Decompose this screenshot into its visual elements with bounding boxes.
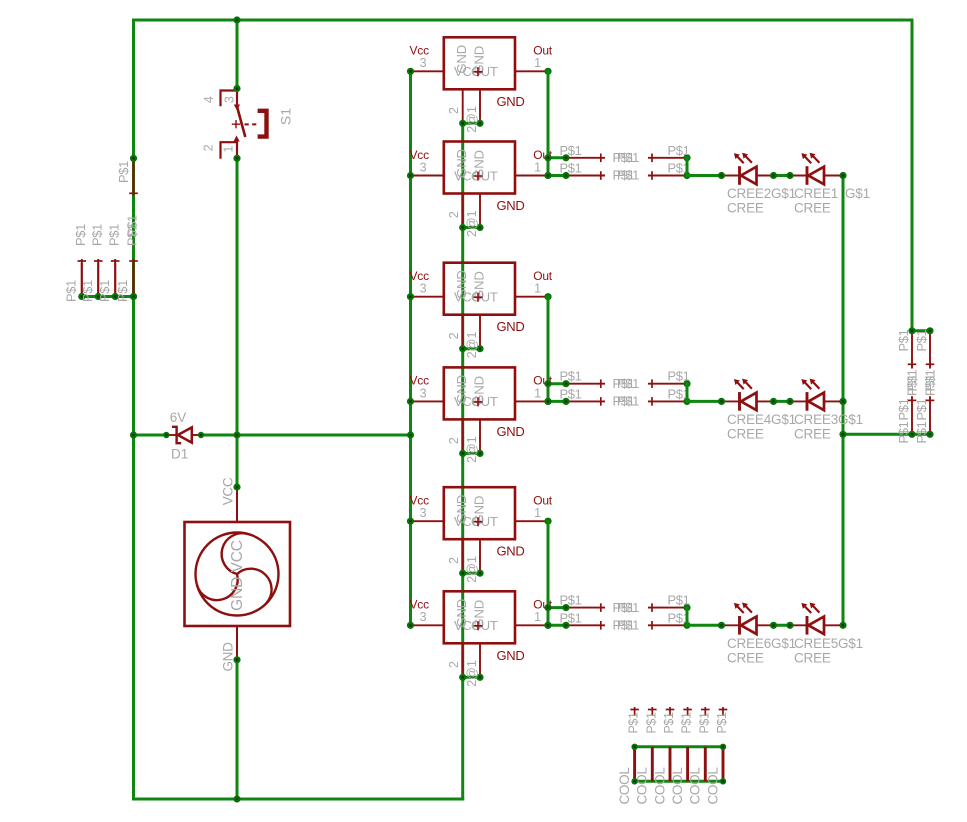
LED CREE2 cathode bar	[738, 166, 741, 185]
U1 pin 1 Out	[515, 70, 548, 72]
pad JP lower-left cross	[600, 621, 602, 630]
wire pad feed upper	[548, 606, 566, 609]
fan M1 GND pin	[236, 626, 238, 660]
node dot header H3	[112, 293, 119, 300]
U4 pin 2@1 GND	[479, 419, 481, 453]
svg-text:CREE: CREE	[794, 650, 831, 665]
U4 pin 3 Vcc	[411, 400, 444, 402]
svg-text:2@1: 2@1	[465, 556, 479, 583]
LED chain left pin	[722, 175, 740, 177]
diode D1 zener bar	[172, 427, 181, 443]
wire pad feed upper	[548, 382, 566, 385]
fan M1 VCC pin	[236, 487, 238, 522]
node dot LED chain 4	[839, 398, 846, 405]
LED CREE4 arrow 2	[745, 381, 752, 388]
pad JP lower-right pin	[648, 400, 687, 402]
U6 pin 2@1 GND	[479, 643, 481, 677]
LED chain mid pin b	[790, 175, 807, 177]
svg-text:3: 3	[420, 282, 427, 296]
pad JP lower-left pin	[566, 175, 605, 177]
LED chain mid pin a	[757, 400, 774, 402]
U2 pin 2@1 GND	[479, 194, 481, 228]
svg-text:COOL: COOL	[617, 767, 632, 805]
U3 GND dot pin2	[459, 345, 466, 352]
svg-text:P$1: P$1	[715, 712, 729, 733]
node dot out column upper	[544, 154, 551, 161]
svg-text:3: 3	[222, 96, 236, 103]
LED CREE6 triangle	[741, 617, 757, 635]
U2 origin cross	[474, 172, 483, 181]
svg-text:GND: GND	[497, 424, 525, 439]
svg-text:CREE: CREE	[727, 650, 764, 665]
U1 Vcc node dot	[407, 68, 414, 75]
pad JP lower-right origin dot	[683, 172, 690, 179]
svg-text:GND: GND	[497, 648, 525, 663]
U1 GND dot pin2@1	[476, 120, 483, 127]
svg-text:D1: D1	[171, 447, 188, 462]
LED chain mid pin b	[790, 400, 807, 402]
U3 pin 3 Vcc	[411, 296, 444, 298]
wire pads to LED chain	[687, 624, 722, 627]
switch S1 pin 1	[236, 142, 238, 159]
header pad H1 pin	[81, 263, 83, 297]
pad JP upper-left cross	[600, 379, 602, 388]
node dot left rail pad	[130, 155, 137, 162]
U5 GND dot pin2	[459, 570, 466, 577]
regulator U2 box	[444, 142, 515, 194]
svg-text:P$1: P$1	[668, 369, 690, 384]
switch S1 lever	[237, 107, 245, 138]
svg-text:CREE4G$1: CREE4G$1	[727, 412, 796, 427]
svg-text:2: 2	[447, 332, 461, 339]
svg-text:P$1: P$1	[106, 224, 121, 246]
LED CREE3 arrow 2	[812, 381, 819, 388]
pad JP lower-left origin dot	[562, 172, 569, 179]
LED chain mid pin b	[790, 624, 807, 626]
wire LED chain mid	[774, 400, 791, 403]
bottom pad B5 top cross	[701, 709, 710, 711]
svg-text:P$1: P$1	[617, 394, 639, 409]
node dot LED chain 4	[839, 622, 846, 629]
wire switch to VCC node	[236, 158, 239, 487]
diode D1 right pin	[192, 434, 202, 436]
bottom jumper J3 bar	[669, 747, 672, 782]
U6 origin cross	[474, 621, 483, 630]
svg-text:GND: GND	[497, 544, 525, 559]
regulator U1 box	[444, 37, 515, 89]
U1 Out node dot	[544, 68, 551, 75]
node dot right connector top right	[926, 327, 933, 334]
right pad upper pin x912	[911, 331, 913, 369]
svg-text:P$1: P$1	[617, 376, 639, 391]
wire switch top feed	[236, 20, 239, 89]
pad JP lower-right pin	[648, 175, 687, 177]
U3 GND dot pin2@1	[476, 345, 483, 352]
svg-text:VCC: VCC	[221, 477, 236, 505]
U6 GND pins tie wire	[463, 676, 480, 679]
svg-text:P$1: P$1	[116, 161, 131, 183]
U2 pin 1 Out	[515, 175, 548, 177]
bottom pad B1 top cross	[630, 709, 639, 711]
fan M1 blade 2	[197, 574, 238, 600]
svg-text:CREE2G$1: CREE2G$1	[727, 186, 796, 201]
fan M1 rotor circle	[196, 533, 279, 616]
U5 pin 2@1 GND	[479, 539, 481, 573]
header pad H4 cross	[129, 260, 138, 262]
wire right rail	[911, 20, 914, 331]
svg-text:1: 1	[534, 282, 541, 296]
bottom jumper J1 bar	[633, 747, 636, 782]
pad P$2 pin	[132, 158, 134, 191]
U1 pin 3 Vcc	[411, 70, 444, 72]
wire pad bridge vertical	[686, 608, 689, 626]
node dot left rail diode row	[130, 431, 137, 438]
svg-text:P$1: P$1	[914, 398, 929, 420]
switch S1 contact wedge top	[234, 105, 240, 111]
svg-text:P$1: P$1	[560, 161, 582, 176]
svg-text:2: 2	[447, 661, 461, 668]
node dot switch top	[233, 85, 240, 92]
node dot Vcc rail diode row	[407, 431, 414, 438]
svg-text:P$1: P$1	[560, 610, 582, 625]
U4 pin 2 GND	[462, 419, 464, 453]
node dot bottom connector TR	[720, 744, 726, 750]
svg-text:P$1: P$1	[697, 712, 711, 733]
pad JP upper-right pin	[648, 157, 687, 159]
svg-text:CREE1: CREE1	[794, 186, 838, 201]
svg-text:COOL: COOL	[652, 767, 667, 805]
LED CREE6 arrow 2	[745, 605, 752, 612]
U5 Out node dot	[544, 518, 551, 525]
pad JP lower-right pin	[648, 624, 687, 626]
LED CREE5 cathode bar	[806, 616, 809, 635]
U4 Out node dot	[544, 398, 551, 405]
svg-text:2@1: 2@1	[465, 436, 479, 463]
U5 GND dot pin2@1	[476, 570, 483, 577]
U6 Out node dot	[544, 622, 551, 629]
pad JP upper-left pin	[566, 383, 605, 385]
LED CREE2 arrow 2	[745, 156, 752, 163]
svg-text:P$1: P$1	[896, 398, 911, 420]
switch S1 pin 4 bracket	[221, 91, 237, 107]
svg-text:COOL: COOL	[705, 767, 720, 805]
LED CREE3 triangle	[808, 393, 824, 411]
bottom pad B2 top cross	[648, 709, 657, 711]
header pad H2 cross	[94, 260, 103, 262]
svg-text:COOL: COOL	[670, 767, 685, 805]
pad JP lower-right origin dot	[683, 398, 690, 405]
U2 GND dot pin2	[459, 224, 466, 231]
node dot right connector bottom right	[926, 431, 933, 438]
header pad H3 pin	[114, 263, 116, 297]
pad JP upper-left pin	[566, 607, 605, 609]
U2 Out node dot	[544, 172, 551, 179]
svg-text:1: 1	[534, 386, 541, 400]
svg-text:P$1: P$1	[668, 593, 690, 608]
bottom pad B3 top cross	[666, 709, 675, 711]
LED chain right pin	[824, 400, 843, 402]
pad JP lower-left origin dot	[562, 622, 569, 629]
U1 pin 2 GND	[462, 89, 464, 123]
right pad lower cross x912	[908, 399, 917, 401]
U2 pin 3 Vcc	[411, 175, 444, 177]
pad JP lower-left pin	[566, 624, 605, 626]
U1 pin 2@1 GND	[479, 89, 481, 123]
svg-text:P$1: P$1	[923, 374, 938, 396]
LED CREE5 arrow 2	[812, 605, 819, 612]
wire LED chain mid	[774, 174, 791, 177]
LED CREE1 arrow 1	[804, 156, 811, 163]
node dot LED chain 2	[770, 398, 777, 405]
node dot LED chain 2	[770, 622, 777, 629]
svg-text:P$1: P$1	[560, 593, 582, 608]
pad JP lower-left pin	[566, 400, 605, 402]
pad JP upper-right origin dot	[683, 154, 690, 161]
wire P$1 header bus	[82, 295, 134, 298]
switch S1 contact wedge bottom	[234, 136, 240, 142]
switch S1 origin cross	[232, 120, 240, 128]
U4 GND dot pin2	[459, 450, 466, 457]
svg-text:2@1: 2@1	[465, 660, 479, 687]
U6 GND dot pin2@1	[476, 674, 483, 681]
U5 GND pins tie wire	[463, 572, 480, 575]
node dot fan GND bottom rail	[233, 795, 240, 802]
pad JP lower-right cross	[651, 621, 653, 630]
bottom pad B6 top cross	[719, 709, 728, 711]
LED CREE6 arrow 1	[737, 606, 744, 613]
pad JP upper-left origin dot	[562, 604, 569, 611]
right pad lower pin x930	[929, 396, 931, 434]
regulator U3 box	[444, 263, 515, 315]
LED chain right pin	[824, 175, 843, 177]
svg-text:3: 3	[420, 386, 427, 400]
wire U5 out to pads column	[547, 521, 550, 625]
svg-text:1: 1	[534, 160, 541, 174]
regulator U6 box	[444, 591, 515, 643]
svg-text:3: 3	[420, 160, 427, 174]
fan M1 body box	[185, 522, 291, 626]
wire left rail	[132, 20, 135, 799]
U2 GND dot pin2@1	[476, 224, 483, 231]
svg-text:COOL: COOL	[635, 767, 650, 805]
right pad upper cross x930	[926, 363, 935, 365]
pad JP lower-right cross	[651, 397, 653, 406]
svg-text:P$1: P$1	[644, 712, 658, 733]
U5 pin 3 Vcc	[411, 520, 444, 522]
bottom jumper J5 bar	[704, 747, 707, 782]
U3 origin cross	[474, 293, 483, 302]
node dot LED chain 3	[786, 172, 793, 179]
bottom jumper J2 bar	[651, 747, 654, 782]
svg-text:2: 2	[447, 107, 461, 114]
bottom jumper J6 bar	[722, 747, 725, 782]
svg-text:CREE: CREE	[794, 201, 831, 216]
node dot header H2	[95, 293, 102, 300]
U3 pin 1 Out	[515, 296, 548, 298]
U5 pin 2 GND	[462, 539, 464, 573]
node dot right connector bottom left	[908, 431, 915, 438]
node dot bottom connector BR	[720, 778, 726, 784]
U5 Vcc node dot	[407, 518, 414, 525]
LED chain right pin	[824, 624, 843, 626]
svg-text:6V: 6V	[170, 410, 187, 425]
U1 GND pins tie wire	[463, 122, 480, 125]
node dot switch column diode row	[233, 431, 240, 438]
pad JP upper-left cross	[600, 154, 602, 163]
header pad H3 cross	[111, 260, 120, 262]
U1 origin cross	[474, 67, 483, 76]
node dot right rail connector	[908, 327, 915, 334]
node dot header H4	[130, 293, 137, 300]
svg-text:P$1: P$1	[896, 421, 911, 443]
wire pad bridge vertical	[686, 158, 689, 176]
svg-text:CREE: CREE	[727, 201, 764, 216]
U4 origin cross	[474, 397, 483, 406]
svg-text:COOL: COOL	[688, 767, 703, 805]
node dot LED chain 2	[770, 172, 777, 179]
right pad lower cross x930	[926, 399, 935, 401]
node dot LED chain 1	[718, 398, 725, 405]
node dot LED chain 1	[718, 172, 725, 179]
U2 Vcc node dot	[407, 172, 414, 179]
U4 pin 1 Out	[515, 400, 548, 402]
svg-text:P$1: P$1	[115, 280, 130, 302]
LED CREE5 triangle	[808, 617, 824, 635]
node dot switch bottom	[233, 155, 240, 162]
LED chain left pin	[722, 400, 740, 402]
diode D1 pin dot left	[163, 432, 169, 438]
U6 pin 3 Vcc	[411, 624, 444, 626]
wire LED return rail	[842, 176, 845, 626]
svg-text:P$1: P$1	[63, 280, 78, 302]
pad JP upper-right pin	[648, 607, 687, 609]
header pad H1 cross	[78, 260, 87, 262]
wire pads to LED chain	[687, 400, 722, 403]
LED CREE4 arrow 1	[737, 382, 744, 389]
regulator U4 box	[444, 367, 515, 419]
U3 pin 2@1 GND	[479, 315, 481, 349]
pad JP lower-right origin dot	[683, 622, 690, 629]
U6 pin 2 GND	[462, 643, 464, 677]
node dot LED rail mid junction	[839, 398, 846, 405]
wire LED chain mid	[774, 624, 791, 627]
wire U3 out to pads column	[547, 297, 550, 402]
node dot LED chain 4	[839, 172, 846, 179]
LED CREE2 triangle	[741, 167, 757, 185]
node dot out column upper	[544, 380, 551, 387]
svg-text:P$1: P$1	[560, 143, 582, 158]
svg-text:G$1: G$1	[845, 186, 870, 201]
svg-text:P$1: P$1	[73, 224, 88, 246]
svg-text:2@1: 2@1	[465, 106, 479, 133]
svg-text:3: 3	[420, 506, 427, 520]
LED chain mid pin a	[757, 175, 774, 177]
right pad lower pin x912	[911, 396, 913, 434]
svg-text:1: 1	[534, 56, 541, 70]
svg-text:P$1: P$1	[80, 280, 95, 302]
LED chain mid pin a	[757, 624, 774, 626]
svg-text:P$1: P$1	[560, 369, 582, 384]
pad JP upper-right origin dot	[683, 380, 690, 387]
svg-text:CREE: CREE	[794, 427, 831, 442]
wire pads to LED chain	[687, 174, 722, 177]
LED CREE4 cathode bar	[738, 392, 741, 411]
pad JP upper-right cross	[651, 603, 653, 612]
pad JP upper-left cross	[600, 603, 602, 612]
node dot bottom connector BL	[631, 778, 637, 784]
node dot bundle joins rail	[130, 293, 137, 300]
svg-text:2: 2	[447, 437, 461, 444]
svg-text:P$1: P$1	[617, 618, 639, 633]
LED CREE2 arrow 1	[737, 156, 744, 163]
wire pad feed lower	[548, 174, 566, 177]
svg-text:P$1: P$1	[896, 329, 911, 351]
node dot fan GND	[233, 656, 240, 663]
svg-text:CREE: CREE	[727, 427, 764, 442]
LED CREE1 triangle	[808, 167, 824, 185]
wire diode row right	[201, 434, 411, 437]
svg-text:GND: GND	[497, 94, 525, 109]
U6 Vcc node dot	[407, 622, 414, 629]
svg-text:P$1: P$1	[680, 712, 694, 733]
node dot VCC	[233, 483, 240, 490]
node dot out column lower	[544, 172, 551, 179]
node dot LED chain 3	[786, 622, 793, 629]
U5 pin 1 Out	[515, 520, 548, 522]
LED CREE5 arrow 1	[804, 606, 811, 613]
wire bottom connector lower bar	[635, 780, 723, 783]
U5 origin cross	[474, 517, 483, 526]
LED CREE6 cathode bar	[738, 616, 741, 635]
LED chain left pin	[722, 624, 740, 626]
pad JP upper-right origin dot	[683, 604, 690, 611]
svg-text:1: 1	[534, 610, 541, 624]
wire U1 out to pads column	[547, 71, 550, 175]
right pad upper cross x912	[908, 363, 917, 365]
regulator U5 box	[444, 487, 515, 539]
svg-text:P$1: P$1	[617, 168, 639, 183]
wire right connector top	[912, 329, 930, 332]
svg-text:CREE5G$1: CREE5G$1	[794, 636, 863, 651]
svg-text:GND: GND	[497, 319, 525, 334]
svg-text:2@1: 2@1	[465, 210, 479, 237]
wire bottom connector upper bar	[635, 745, 723, 748]
switch S1 pin 3	[236, 89, 238, 106]
wire pad feed lower	[548, 624, 566, 627]
svg-text:P$1: P$1	[914, 421, 929, 443]
svg-text:2: 2	[202, 144, 216, 151]
fan M1 blade 3	[237, 569, 272, 604]
switch S1 actuator bracket	[258, 111, 267, 137]
svg-text:GND VCC: GND VCC	[229, 540, 246, 611]
pad JP lower-left origin dot	[562, 398, 569, 405]
node dot out column lower	[544, 398, 551, 405]
svg-text:P$1: P$1	[89, 224, 104, 246]
svg-text:3: 3	[420, 56, 427, 70]
diode D1 pin dot right	[198, 432, 204, 438]
svg-text:P$1: P$1	[627, 712, 641, 733]
U4 GND dot pin2@1	[476, 450, 483, 457]
LED CREE1 cathode bar	[806, 166, 809, 185]
pad JP upper-right pin	[648, 383, 687, 385]
U6 pin 1 Out	[515, 624, 548, 626]
U3 pin 2 GND	[462, 315, 464, 349]
bottom jumper J4 bar	[686, 747, 689, 782]
U3 GND pins tie wire	[463, 347, 480, 350]
node dot out column upper	[544, 604, 551, 611]
fan M1 blade 1	[222, 533, 248, 574]
U1 GND dot pin2	[459, 120, 466, 127]
